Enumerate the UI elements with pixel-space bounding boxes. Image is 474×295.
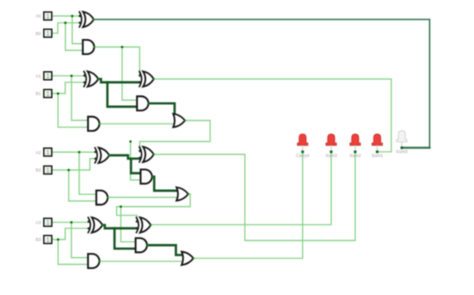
svg-text:B1: B1 (36, 91, 42, 96)
svg-text:1: 1 (46, 237, 50, 244)
svg-text:A3: A3 (36, 220, 42, 225)
svg-text:B3: B3 (36, 237, 42, 242)
svg-text:1: 1 (46, 31, 50, 38)
svg-text:Sum0: Sum0 (396, 149, 408, 154)
svg-text:Sum3: Sum3 (325, 153, 337, 158)
svg-text:1: 1 (46, 149, 50, 156)
svg-text:1: 1 (46, 167, 50, 174)
svg-text:1: 1 (46, 13, 50, 20)
svg-text:A2: A2 (36, 150, 42, 155)
svg-text:Sum1: Sum1 (371, 153, 383, 158)
svg-text:Sum2: Sum2 (349, 153, 361, 158)
svg-text:1: 1 (46, 73, 50, 80)
svg-text:1: 1 (46, 91, 50, 98)
svg-text:B2: B2 (36, 168, 42, 173)
svg-text:Carry4: Carry4 (296, 153, 310, 158)
svg-text:1: 1 (46, 220, 50, 227)
svg-text:A0: A0 (36, 14, 42, 19)
svg-text:A1: A1 (36, 74, 42, 79)
svg-text:B0: B0 (36, 31, 42, 36)
